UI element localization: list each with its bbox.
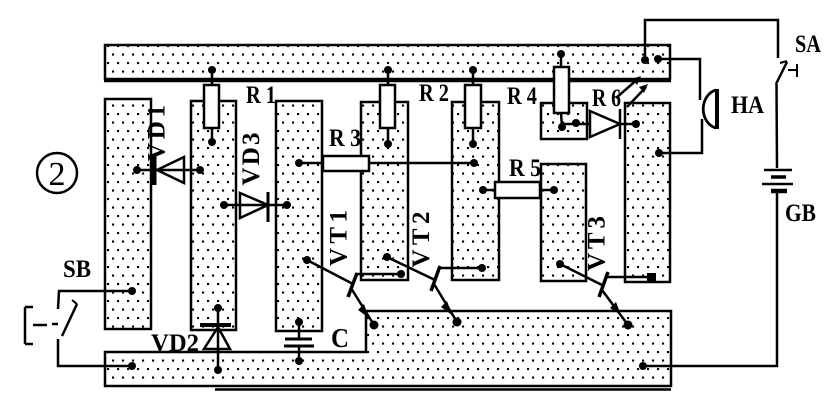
transistor VT1: [303, 256, 405, 330]
svg-text:VD1: VD1: [144, 105, 171, 161]
svg-text:C: C: [331, 323, 349, 353]
wire (battery to bottom strip): [639, 193, 777, 370]
svg-text:R 4: R 4: [507, 83, 537, 110]
svg-text:HA: HA: [731, 92, 764, 119]
wire (strip A to pushbutton SB): [58, 287, 136, 309]
resistor R1: [204, 66, 219, 146]
svg-text:SB: SB: [63, 256, 91, 283]
node R3-E junction: [470, 159, 478, 167]
pushbutton SB: [25, 300, 77, 344]
LED light arrow 1: [616, 76, 641, 98]
svg-text:VT2: VT2: [408, 212, 435, 268]
svg-text:VD3: VD3: [238, 133, 265, 186]
svg-text:GB: GB: [785, 200, 816, 227]
battery GB: [762, 170, 793, 191]
wire (thick under-edge of top strip): [104, 80, 671, 83]
resistor R2: [380, 66, 395, 148]
strip F: [541, 164, 586, 281]
strip B: [191, 101, 236, 330]
wire (speaker HA bottom to strip H): [655, 119, 702, 157]
LED light arrow 2: [627, 84, 648, 107]
wire (top strip to speaker HA top): [654, 55, 700, 100]
transistor VT2: [383, 253, 486, 327]
svg-text:R 1: R 1: [246, 82, 276, 109]
resistor R6: [554, 50, 569, 131]
bottom strip G (L-shaped ground strip): [105, 311, 671, 386]
svg-text:R 5: R 5: [509, 155, 541, 182]
pad P (small pad under R6): [541, 103, 587, 139]
capacitor C (strip C to bottom strip): [284, 318, 314, 365]
LED (diode by R6, pad P to strip H): [562, 109, 640, 139]
wire (pushbutton SB to bottom strip): [58, 339, 136, 370]
svg-text:VT1: VT1: [326, 210, 353, 266]
svg-text:R 2: R 2: [419, 80, 449, 107]
figure number 2 in circle: [37, 153, 77, 193]
svg-text:2: 2: [49, 156, 66, 193]
wire (thick under-edge of bottom strip): [215, 388, 671, 391]
diode VD2 (vertical, strip B to bottom strip): [200, 304, 231, 374]
wire (SA to battery): [775, 84, 778, 168]
wire (top strip to switch SA): [641, 20, 778, 64]
resistor R3 (horizontal): [295, 156, 369, 171]
strip A (leftmost vertical copper strip): [105, 99, 151, 329]
svg-text:R 3: R 3: [329, 125, 361, 152]
speaker HA: [703, 89, 717, 129]
diode VD1 (between strips A and B): [133, 156, 204, 185]
switch SA: [776, 61, 797, 84]
svg-text:VD2: VD2: [151, 330, 199, 357]
resistor R5 (horizontal): [479, 182, 558, 198]
diode VD3 (between strips B and C): [220, 192, 291, 222]
top strip (supply rail copper strip): [105, 45, 670, 79]
strip C: [276, 101, 322, 331]
strip D: [361, 102, 408, 280]
svg-text:VT3: VT3: [584, 216, 611, 271]
strip H (tall right strip): [625, 103, 670, 282]
svg-text:SA: SA: [795, 31, 821, 58]
strip E: [452, 102, 499, 280]
transistor VT3: [556, 260, 656, 330]
wire (R3 to strip E): [369, 162, 474, 165]
resistor R4: [465, 66, 481, 148]
